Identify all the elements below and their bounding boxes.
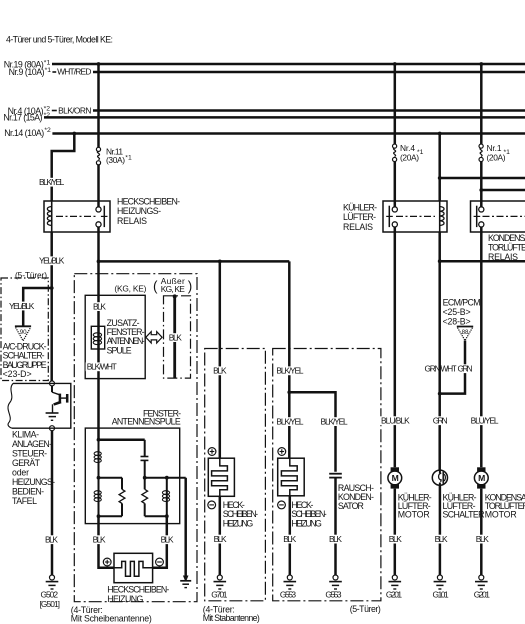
fuse label Nr.9 (10A)*1 — [9, 67, 52, 77]
net label BLK/ORN — [52, 105, 92, 115]
wire: ECM arrow down and left to GRN node — [440, 341, 465, 394]
wire: antenna stub (Ausser KG,KE) — [173, 296, 176, 378]
net label BLK (M1) — [388, 535, 403, 544]
Klimaanlagen-Steuergeraet box (torn left edge) — [8, 383, 71, 428]
wire: fuse Nr.11 to relay contact — [97, 165, 100, 207]
fuse label Nr.17 (15A)*2 — [3, 112, 50, 122]
fuse label Nr.19 (80A)*1 — [4, 59, 51, 69]
wire: to off-page right at y=190 — [481, 189, 525, 192]
svg-text:BLK: BLK — [169, 332, 182, 342]
svg-text:*1: *1 — [45, 67, 52, 74]
svg-text:YEL/BLK: YEL/BLK — [39, 256, 65, 266]
wire: Klima box to ground G502 — [51, 431, 54, 575]
relay K2 actuation dash-dot — [396, 215, 435, 217]
wire: left coil to heater element (+) — [99, 516, 115, 568]
ground (chassis, antenna) — [180, 576, 191, 588]
svg-text:HEIZUNGS-: HEIZUNGS- — [117, 206, 161, 216]
svg-text:TORLÜFTER-: TORLÜFTER- — [488, 242, 525, 252]
fuse Nr.1 (20A)*1 — [479, 143, 510, 162]
node: junction ECM / condenser coil — [438, 259, 442, 263]
svg-text:G201: G201 — [386, 590, 403, 600]
node: junction bus Nr.19 / fuse Nr.11 feed — [97, 62, 101, 66]
svg-text:HEIZUNG: HEIZUNG — [107, 594, 143, 604]
relay K3 contacts and bar — [474, 206, 484, 227]
Rausch-Kondensator label — [338, 483, 374, 511]
svg-text:BLK/YEL: BLK/YEL — [276, 366, 304, 376]
net label BLK/YEL — [38, 178, 66, 187]
svg-text:*1: *1 — [417, 149, 424, 156]
svg-text:BLU/YEL: BLU/YEL — [471, 416, 499, 426]
heater element E3 Heckscheibenheizung (5-Tuerer) — [278, 458, 305, 496]
net label BLK — [212, 366, 228, 375]
pin: polarity (+) — [278, 448, 286, 456]
capacitor C1 (antenna) — [141, 440, 149, 478]
net label BLK — [168, 333, 183, 342]
svg-text:BLK: BLK — [476, 534, 489, 544]
heater E3 label — [291, 500, 326, 529]
svg-text:HEIZUNG: HEIZUNG — [223, 519, 254, 529]
symbol: double arrow (coupling) — [146, 332, 162, 343]
svg-text:BLK: BLK — [329, 534, 342, 544]
net label BLK (right) — [159, 535, 174, 544]
node: junction mid row (cap/resistor) — [143, 476, 147, 480]
variant box section 1 (4-Tuerer mit Scheibenantenne), chain-dash — [74, 274, 197, 602]
svg-text:G201: G201 — [474, 590, 491, 600]
svg-text:BLK: BLK — [283, 534, 296, 544]
svg-text:(5-Türer): (5-Türer) — [350, 604, 381, 614]
net label YEL/BLK (in A/C box) — [8, 302, 36, 311]
wire: mid row right pair out to ground branch — [145, 477, 186, 479]
caption ( Ausser KG, KE ) — [153, 276, 192, 294]
svg-text:M: M — [392, 473, 399, 483]
relay K1 coil — [47, 201, 51, 232]
wire: bus Nr.14 down to relay K2 coil — [438, 134, 441, 202]
wire: switch S1 to ground G101 — [439, 485, 442, 575]
Fensterantennenspule box — [85, 428, 179, 523]
Klima box label — [12, 429, 55, 506]
net label WHT/RED — [52, 67, 91, 77]
svg-text:YEL/BLK: YEL/BLK — [9, 301, 35, 311]
svg-text:STEUER-: STEUER- — [12, 448, 47, 458]
wire: horizontal distribution to rear-window sections — [99, 260, 290, 263]
svg-text:BLK/YEL: BLK/YEL — [39, 177, 65, 187]
svg-text:*1: *1 — [504, 149, 511, 156]
svg-text:RELAIS: RELAIS — [343, 222, 373, 232]
fuse label Nr.14 (10A)*2 — [4, 127, 51, 138]
svg-text:GERÄT: GERÄT — [12, 458, 41, 468]
motor M1 label — [398, 492, 432, 519]
wire: fuse Nr.1 to junction — [480, 162, 483, 207]
connector arrow 90 (to A/C pressure switch) — [15, 326, 31, 341]
wire: to off-page right at y=261 — [440, 260, 525, 263]
transistor Q1 (inside Klima box) — [52, 386, 67, 413]
wire: branch to A/C pressure switch — [23, 288, 52, 326]
svg-text:GRN: GRN — [433, 416, 448, 426]
relay K3 KONDENSATORLUEFTER-RELAIS box (cut at page edge) — [471, 201, 525, 232]
svg-text:SATOR: SATOR — [338, 501, 364, 511]
svg-text:SPULE: SPULE — [107, 345, 132, 355]
node: junction condenser relay feed — [479, 188, 483, 192]
wire: bus Nr.19 — [52, 63, 525, 66]
Zusatz-Fensterantennenspule box — [85, 295, 145, 378]
wire: relay K1 coil to YEL/BLK spine — [50, 232, 53, 381]
wire: mid row left pair — [99, 477, 123, 479]
connector arrow 88 (ECM/PCM) — [457, 327, 473, 341]
svg-text:BLK: BLK — [435, 534, 448, 544]
net label GRN/WHT — [423, 364, 458, 373]
svg-text:Mit Scheibenantenne): Mit Scheibenantenne) — [71, 614, 152, 624]
svg-text:BLK: BLK — [389, 534, 402, 544]
wire: relay K2 coil to ECM node — [438, 232, 441, 261]
wire: spine into window antenna coil section — [97, 261, 100, 440]
net label BLK — [44, 535, 59, 544]
relay K2 coil — [440, 201, 444, 232]
wire: from bus Nr.19 down to fuse Nr.11 — [97, 64, 100, 147]
capacitor C2 Rausch-Kondensator — [329, 474, 342, 478]
switch S1 label — [443, 492, 485, 519]
ground G701 — [211, 575, 228, 600]
inductor L2 (antenna coil upper) — [94, 440, 101, 478]
node: junction section-2 feed — [218, 260, 222, 264]
net label BLK/WHT — [86, 362, 118, 371]
wire: heater E3 to ground G553 — [289, 496, 292, 575]
wire: fuse Nr.4 to relay K2 contact — [394, 162, 397, 207]
A/C-Druckschalter-Baugruppe dashed box — [1, 278, 48, 381]
wire: distribution corner down to 5-Tuerer heater — [288, 261, 291, 458]
net label GRN — [432, 416, 449, 425]
svg-text:90: 90 — [20, 329, 27, 336]
Ausser KG,KE antenna box (dashed) — [164, 296, 191, 378]
svg-text:BLK: BLK — [93, 301, 106, 311]
svg-text:[G501]: [G501] — [40, 599, 61, 609]
pin: polarity (-) — [278, 501, 286, 509]
svg-text:BEDIEN-: BEDIEN- — [12, 486, 44, 496]
wire: bus Nr.14 to relay K1 coil (jog) — [52, 134, 75, 202]
svg-text:WHT/RED: WHT/RED — [57, 67, 91, 77]
motor M2 KONDENSATORLUEFTER-MOTOR — [474, 467, 488, 488]
wire: motor M2 to ground G201 — [480, 489, 483, 575]
wire: relay K3 contact to condenser motor (BLU/YEL) — [480, 227, 483, 467]
Fensterantennenspule label — [112, 408, 181, 426]
net label YEL/BLK — [38, 256, 66, 265]
pin: polarity (-) — [208, 501, 216, 509]
net label BLK/YEL (above junction) — [275, 366, 305, 375]
wire: bus to fuse Nr.1 — [480, 64, 483, 144]
svg-text:G553: G553 — [280, 590, 297, 600]
svg-text:<28-B>: <28-B> — [443, 317, 471, 327]
ground G201 (M1) — [386, 575, 403, 600]
svg-text:KG, KE: KG, KE — [161, 284, 185, 294]
relay K2 KUEHLER-LUEFTER-RELAIS box — [383, 201, 447, 232]
switch S1 KUEHLER-LUEFTER-SCHALTER (thermo switch) — [432, 470, 447, 485]
resistor R2 — [142, 478, 148, 517]
resistor R1 — [119, 478, 125, 517]
pin: polarity (+) — [208, 448, 216, 456]
svg-text:4-Türer und 5-Türer, Modell KE: 4-Türer und 5-Türer, Modell KE: — [6, 35, 113, 45]
wire: motor M1 to ground G201 — [394, 489, 397, 575]
svg-text:BLK: BLK — [45, 535, 58, 545]
svg-text:M: M — [478, 473, 485, 483]
ground G553 (heater) — [280, 575, 297, 600]
wire: feed to heater (Stabantenne) — [219, 261, 222, 458]
ground G553 (condenser) — [325, 575, 342, 600]
net label BLK — [92, 302, 107, 311]
svg-text:RELAIS: RELAIS — [488, 252, 518, 262]
relay K1 label — [117, 196, 180, 226]
wire: right coil to heater element (-) — [153, 516, 167, 568]
svg-text:BLK: BLK — [214, 534, 227, 544]
node: junction mid row (coil right) — [165, 476, 169, 480]
svg-text:ANTENNENSPULE: ANTENNENSPULE — [112, 417, 181, 427]
relay K2 label — [343, 203, 377, 232]
svg-text:BLK/ORN: BLK/ORN — [58, 105, 91, 115]
svg-text:<23-D>: <23-D> — [3, 369, 32, 379]
svg-text:(KG, KE): (KG, KE) — [114, 284, 146, 294]
node: junction bus Nr.14 / relay K2 coil feed — [438, 132, 442, 136]
motor M2 label — [485, 492, 525, 519]
wire: to off-page right at y=178 — [440, 177, 525, 180]
svg-text:Mit Stabantenne): Mit Stabantenne) — [203, 613, 260, 623]
pin: polarity (+) — [103, 558, 111, 566]
net label BLK — [328, 535, 343, 544]
svg-text:Nr.14 (10A): Nr.14 (10A) — [4, 128, 44, 138]
wire: bus Nr.14 — [52, 132, 525, 135]
wire: relay K2 contact to fan motor (BLU/BLK) — [394, 227, 397, 467]
node: junction bus Nr.19 / fuse Nr.1 feed — [479, 62, 483, 66]
wire: bottom row right pair — [145, 515, 167, 517]
net label GRN (ECM branch) — [456, 364, 473, 373]
wire: top row — [99, 439, 145, 442]
heater element E2 Heckscheibenheizung (Stabantenne) — [208, 458, 234, 496]
net label BLK/YEL (condenser wire) — [319, 417, 349, 426]
relay K3 actuation dash-dot — [483, 215, 525, 217]
wire: heater E2 to ground G701 — [219, 496, 222, 575]
wire: bottom row left pair — [99, 515, 123, 517]
svg-text:SCHALTER: SCHALTER — [443, 510, 485, 520]
variant box section 3 (5-Tuerer), chain-dash — [273, 349, 381, 601]
svg-text:HEIZUNGS-: HEIZUNGS- — [12, 477, 55, 487]
wire: bus Nr.9 WHT/RED — [93, 71, 525, 74]
node: junction bus Nr.14 / relay coil feed — [72, 132, 76, 136]
svg-text:(30A): (30A) — [106, 155, 125, 165]
node: junction mid row left — [97, 476, 101, 480]
motor M1 KUEHLER-LUEFTER-MOTOR — [388, 467, 402, 488]
svg-text:HECKSCHEIBEN-: HECKSCHEIBEN- — [117, 196, 180, 206]
wire: bus Nr.17 — [44, 116, 525, 119]
svg-text:G701: G701 — [211, 590, 228, 600]
svg-text:BLK/YEL: BLK/YEL — [276, 416, 304, 426]
svg-text:KÜHLER-: KÜHLER- — [343, 203, 377, 213]
pin: terminal circle bottom of Klima box — [50, 426, 55, 431]
pin: terminal circle top of Klima box — [50, 381, 55, 386]
svg-text:G101: G101 — [433, 590, 450, 600]
net label BLU/YEL — [469, 416, 499, 425]
net label BLK — [282, 535, 297, 544]
node: antenna stub top — [173, 294, 177, 298]
wire: relay K1 contact down to distribution node — [97, 227, 100, 261]
svg-text:88: 88 — [462, 329, 469, 336]
relay K3 label — [488, 233, 525, 262]
svg-text:KONDENSA-: KONDENSA- — [488, 233, 525, 243]
wire: condenser to ground G553 — [334, 478, 337, 575]
variant box section 2 (4-Tuerer mit Stabantenne), chain-dash — [205, 349, 266, 601]
svg-text:*1: *1 — [125, 155, 132, 162]
svg-text:GRN: GRN — [458, 364, 473, 374]
svg-text:BLK: BLK — [161, 535, 174, 545]
relay K2 contacts and bar — [386, 206, 397, 227]
net label BLK (S1) — [433, 535, 448, 544]
svg-text:BLK/YEL: BLK/YEL — [321, 416, 349, 426]
svg-text:ECM/PCM: ECM/PCM — [443, 297, 481, 307]
svg-text:BLK/WHT: BLK/WHT — [87, 362, 117, 372]
pin: polarity (-) — [156, 558, 164, 566]
node: junction noise condenser branch — [287, 390, 291, 394]
svg-text:BLK: BLK — [213, 366, 227, 376]
heater E2 label — [223, 500, 258, 529]
node: junction bus Nr.19 / fuse Nr.4 feed — [393, 62, 397, 66]
ground G502 — [40, 575, 61, 609]
inductor L1 Zusatz-Fensterantennenspule — [91, 326, 104, 349]
net label BLK — [212, 535, 227, 544]
wire: relay K2 coil low side down to fan switch — [438, 261, 441, 470]
node: junction distribution — [97, 260, 101, 264]
heater label — [107, 585, 169, 604]
svg-text:(: ( — [153, 279, 158, 294]
caption (4-Tuerer: Mit Scheibenantenne) — [71, 605, 152, 624]
heater element E1 Heckscheibenheizung (Scheibenantenne) — [114, 553, 153, 582]
caption (4-Tuerer: Mit Stabantenne) — [203, 605, 260, 624]
svg-text:G553: G553 — [325, 590, 342, 600]
svg-text:Nr.17 (15A): Nr.17 (15A) — [3, 112, 42, 122]
net label BLK (M2) — [475, 535, 490, 544]
node: junction coil feed split — [438, 176, 442, 180]
fuse Nr.11 (30A)*1 — [96, 146, 132, 165]
svg-text:MOTOR: MOTOR — [485, 510, 517, 520]
fuse Nr.4 (20A)*1 — [393, 143, 424, 162]
svg-text:<25-B>: <25-B> — [443, 307, 471, 317]
net label BLK/YEL (heater wire) — [275, 417, 305, 426]
svg-text:ANLAGEN-: ANLAGEN- — [12, 439, 52, 449]
fuse label Nr.4 (10A)*2 — [8, 106, 51, 116]
node: junction bottom left — [97, 514, 101, 518]
svg-text:*1: *1 — [44, 60, 51, 67]
svg-text:): ) — [188, 279, 193, 294]
Zusatz coil label — [107, 318, 145, 356]
svg-text:oder: oder — [12, 467, 29, 477]
ground G101 (S1) — [433, 575, 450, 600]
ECM/PCM label — [443, 297, 481, 326]
svg-text:TAFEL: TAFEL — [12, 496, 37, 506]
svg-text:*2: *2 — [44, 127, 51, 134]
svg-text:HEIZUNG: HEIZUNG — [291, 519, 322, 529]
node: junction GRN — [438, 392, 442, 396]
net label BLK (left) — [91, 535, 106, 544]
svg-text:Nr.9 (10A): Nr.9 (10A) — [9, 67, 45, 77]
ground (inside Klima box) — [46, 413, 59, 420]
wire: branch to noise condenser — [289, 392, 335, 472]
inductor L3 (lower left) — [94, 478, 101, 517]
svg-text:RELAIS: RELAIS — [117, 216, 147, 226]
svg-text:BLU/BLK: BLU/BLK — [381, 416, 410, 426]
svg-text:LÜFTER-: LÜFTER- — [343, 212, 376, 222]
relay K1 HECKSCHEIBEN-HEIZUNGS-RELAIS box — [44, 201, 110, 232]
relay K1 actuation dash-dot — [56, 215, 96, 217]
svg-text:BLK: BLK — [93, 535, 106, 545]
ground G201 (M2) — [474, 575, 491, 600]
A/C box label — [3, 341, 47, 379]
svg-text:KLIMA-: KLIMA- — [12, 429, 39, 439]
node: junction YEL/BLK spine / A/C branch — [50, 286, 54, 290]
wire: bus to fuse Nr.4 — [394, 64, 397, 144]
node: junction bottom right — [165, 514, 169, 518]
node: junction top row — [97, 438, 101, 442]
relay K1 contacts and bar — [96, 206, 108, 227]
net label BLU/BLK — [380, 416, 411, 425]
inductor L4 (lower right) — [162, 478, 169, 517]
wire: antenna box branch to chassis ground — [184, 478, 187, 576]
svg-text:MOTOR: MOTOR — [398, 510, 430, 520]
wire: bus Nr.4 BLK/ORN — [93, 109, 525, 112]
